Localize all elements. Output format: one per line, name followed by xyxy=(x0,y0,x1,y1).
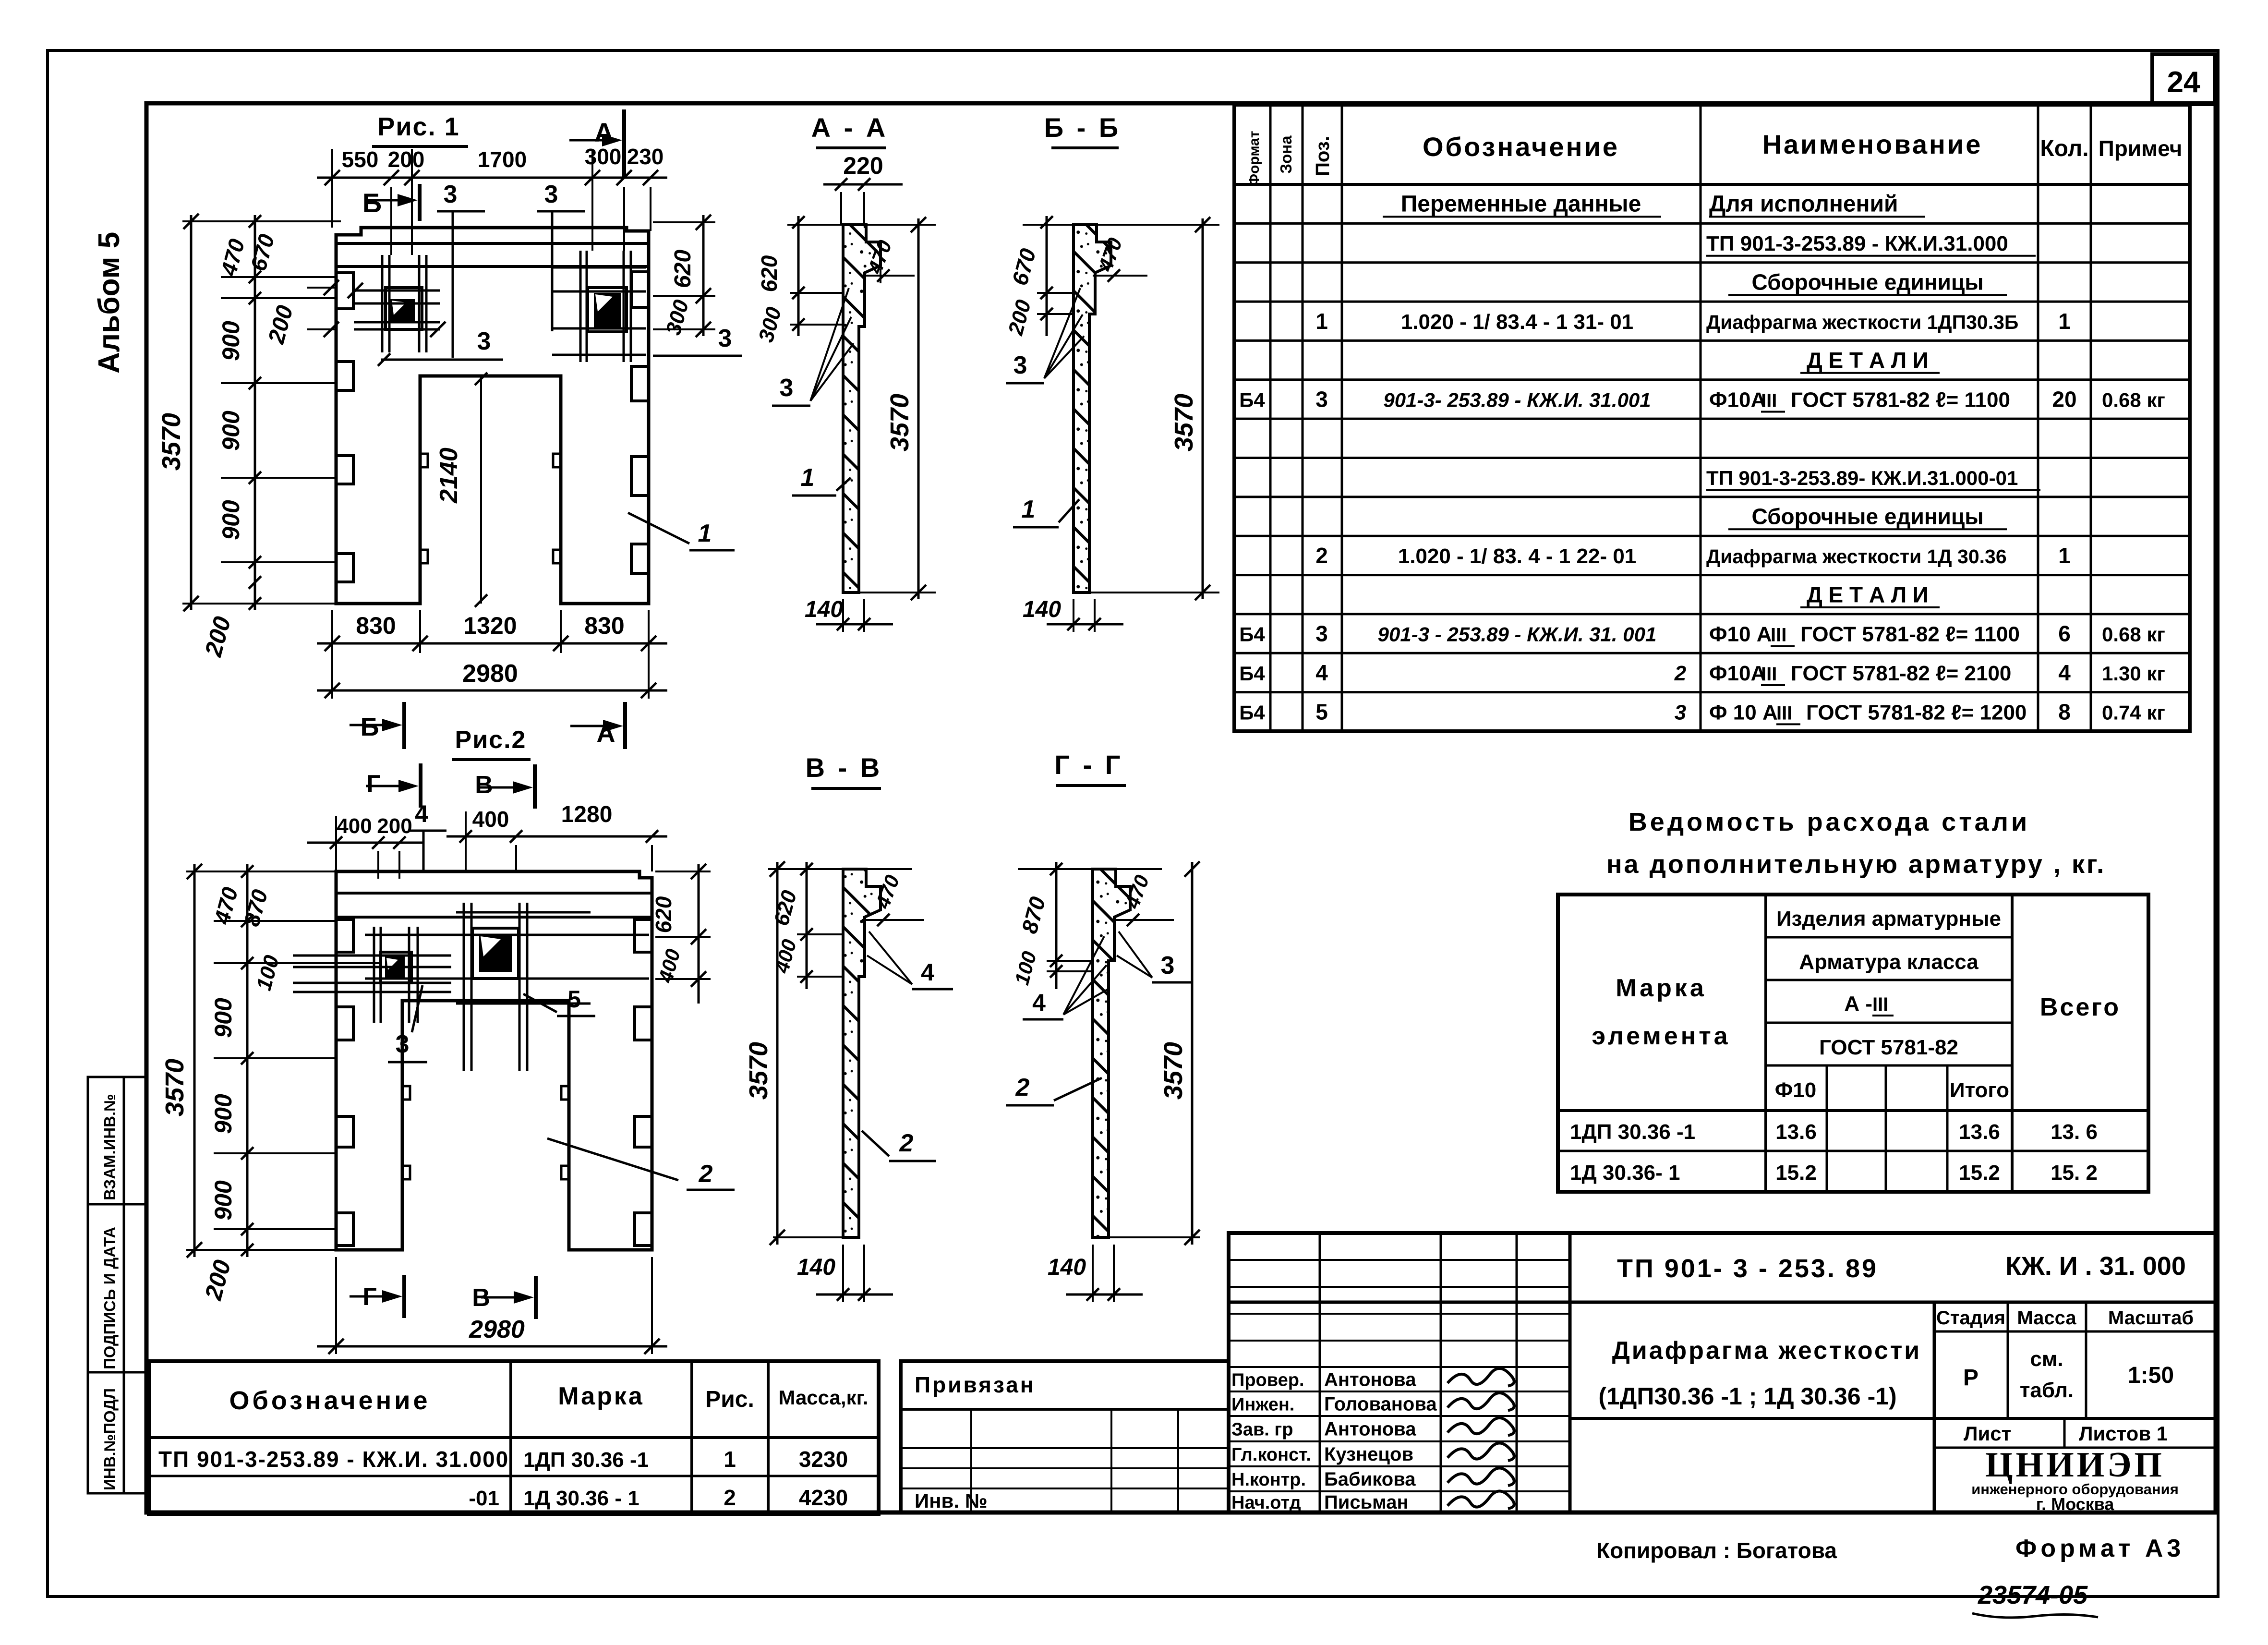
svg-text:140: 140 xyxy=(1048,1255,1086,1280)
svg-text:400: 400 xyxy=(337,814,372,838)
fig2 shear keys left edge xyxy=(336,919,353,952)
steel table verticals xyxy=(1764,895,1767,1192)
svg-text:Инжен.: Инжен. xyxy=(1231,1395,1294,1415)
svg-text:550: 550 xyxy=(342,147,379,172)
fig1 dim 200 near left embed xyxy=(324,280,339,295)
svg-text:Ф10А: Ф10А xyxy=(1709,662,1766,685)
svg-text:ГОСТ 5781-82 ℓ= 1100: ГОСТ 5781-82 ℓ= 1100 xyxy=(1791,388,2010,411)
svg-text:Листов 1: Листов 1 xyxy=(2079,1422,2168,1445)
svg-text:1Д 30.36- 1: 1Д 30.36- 1 xyxy=(1570,1161,1680,1185)
fig1 opening dim line 2140 vertical xyxy=(480,376,482,604)
svg-text:ГОСТ 5781-82: ГОСТ 5781-82 xyxy=(1819,1036,1958,1059)
svg-text:2: 2 xyxy=(1315,543,1328,568)
svg-text:Гл.конст.: Гл.конст. xyxy=(1231,1445,1311,1465)
section В-В top extension line xyxy=(768,868,912,870)
svg-text:Копировал : Богатова: Копировал : Богатова xyxy=(1596,1538,1837,1563)
svg-text:Д Е Т А Л И: Д Е Т А Л И xyxy=(1807,348,1929,373)
bottom table columns xyxy=(509,1361,512,1514)
svg-text:2140: 2140 xyxy=(435,448,463,504)
svg-text:1: 1 xyxy=(1022,496,1036,523)
section Г-Г column xyxy=(1093,869,1130,1237)
svg-text:Рис.2: Рис.2 xyxy=(455,726,527,754)
svg-text:III: III xyxy=(1872,994,1888,1015)
svg-text:20: 20 xyxy=(2052,387,2076,411)
svg-text:Лист: Лист xyxy=(1964,1422,2011,1445)
svg-text:901-3- 253.89 - КЖ.И. 31.001: 901-3- 253.89 - КЖ.И. 31.001 xyxy=(1383,388,1651,411)
svg-text:Масса,кг.: Масса,кг. xyxy=(778,1386,868,1409)
svg-text:Поз.: Поз. xyxy=(1312,136,1333,176)
svg-text:3: 3 xyxy=(1675,701,1686,724)
svg-text:3: 3 xyxy=(1161,952,1175,980)
svg-text:5: 5 xyxy=(1315,699,1328,724)
svg-text:Наименование: Наименование xyxy=(1762,129,1983,159)
svg-text:1:50: 1:50 xyxy=(2128,1363,2174,1388)
svg-text:140: 140 xyxy=(1023,597,1061,622)
svg-text:Нач.отд: Нач.отд xyxy=(1231,1493,1301,1513)
svg-text:300: 300 xyxy=(585,144,622,169)
svg-text:1.30 кг: 1.30 кг xyxy=(2102,662,2165,685)
svg-text:15. 2: 15. 2 xyxy=(2051,1161,2098,1185)
svg-text:0.68 кг: 0.68 кг xyxy=(2102,623,2165,646)
svg-text:Ф10 А: Ф10 А xyxy=(1709,623,1772,646)
svg-text:4: 4 xyxy=(1032,989,1046,1016)
svg-text:ГОСТ 5781-82 ℓ= 1200: ГОСТ 5781-82 ℓ= 1200 xyxy=(1806,701,2027,724)
section Б-Б bottom extension line xyxy=(1074,592,1219,593)
fig2 top dim chain 400/1280 xyxy=(446,835,667,838)
svg-text:900: 900 xyxy=(217,500,244,540)
fig1 shear keys right edge xyxy=(631,272,649,307)
svg-text:III: III xyxy=(1776,702,1792,724)
fig2 embed right rebar verticals xyxy=(463,903,465,1071)
svg-text:Сборочные единицы: Сборочные единицы xyxy=(1752,504,1984,529)
spec table outer xyxy=(1234,105,2190,731)
fig2 panel outline xyxy=(336,871,652,1250)
svg-text:0.68 кг: 0.68 кг xyxy=(2102,388,2165,411)
svg-text:2: 2 xyxy=(724,1485,736,1510)
fig2 top strip lines xyxy=(336,892,652,895)
fig2 shear keys right edge xyxy=(635,919,652,952)
fig1 left dim line 3570 xyxy=(190,215,193,610)
svg-text:13.6: 13.6 xyxy=(1775,1120,1817,1144)
svg-text:15.2: 15.2 xyxy=(1959,1161,2000,1185)
stamp box ИНВ.№ПОДЛ xyxy=(88,1372,146,1493)
svg-text:Ведомость расхода стали: Ведомость расхода стали xyxy=(1629,808,2030,836)
svg-text:Б: Б xyxy=(362,188,382,218)
svg-text:0.74 кг: 0.74 кг xyxy=(2102,701,2165,724)
svg-text:8: 8 xyxy=(2058,699,2071,724)
svg-text:1280: 1280 xyxy=(561,802,613,827)
svg-text:Ф10А: Ф10А xyxy=(1709,388,1766,411)
fig2 left dim line 3570 xyxy=(193,864,196,1257)
привязан cell xyxy=(901,1408,1229,1411)
svg-text:1Д 30.36 - 1: 1Д 30.36 - 1 xyxy=(523,1487,639,1510)
svg-text:3570: 3570 xyxy=(744,1042,773,1100)
svg-text:230: 230 xyxy=(627,144,664,169)
fig1 embed plate right xyxy=(588,288,627,332)
svg-text:Всего: Всего xyxy=(2040,993,2121,1021)
svg-text:620: 620 xyxy=(670,250,696,288)
svg-text:1700: 1700 xyxy=(478,147,527,172)
list row xyxy=(1934,1447,2216,1449)
svg-text:900: 900 xyxy=(217,411,244,451)
svg-text:г. Москва: г. Москва xyxy=(2036,1494,2115,1514)
svg-text:Ф10: Ф10 xyxy=(1775,1078,1817,1102)
svg-text:2980: 2980 xyxy=(462,660,518,688)
svg-text:Б: Б xyxy=(361,713,379,741)
svg-text:Письман: Письман xyxy=(1324,1492,1409,1513)
fig1 embed right rebar horizontals xyxy=(552,266,646,269)
svg-text:III: III xyxy=(1761,390,1777,411)
svg-text:Марка: Марка xyxy=(1616,974,1707,1002)
svg-text:Привязан: Привязан xyxy=(915,1372,1036,1397)
svg-text:ТП 901-3-253.89 - КЖ.И. 31.0: ТП 901-3-253.89 - КЖ.И. 31.000 xyxy=(158,1447,509,1472)
svg-text:3: 3 xyxy=(718,325,732,352)
steel table horizontals xyxy=(1766,936,2012,939)
svg-text:Арматура класса: Арматура класса xyxy=(1799,950,1978,974)
svg-text:Рис.: Рис. xyxy=(705,1387,754,1412)
title block outer xyxy=(1229,1233,2216,1512)
fig1 dim extension verticals top xyxy=(331,149,333,228)
fig2 right dim chain 620/400 xyxy=(698,864,700,1004)
section В-В column xyxy=(843,869,881,1237)
fig1 embed left rebar horizontals xyxy=(354,290,440,292)
svg-text:1.020 - 1/ 83.4 - 1 31- 0: 1.020 - 1/ 83.4 - 1 31- 01 xyxy=(1401,310,1633,334)
svg-text:200: 200 xyxy=(377,814,412,838)
section Г-Г left dims 870/100 xyxy=(1055,862,1058,989)
svg-text:15.2: 15.2 xyxy=(1775,1161,1817,1185)
svg-text:Формат: Формат xyxy=(1246,131,1262,186)
title block name/stadia divider xyxy=(1570,1417,2216,1420)
svg-text:Примеч: Примеч xyxy=(2099,136,2183,161)
section Б-Б column xyxy=(1074,225,1111,593)
page number box xyxy=(2152,54,2215,104)
svg-text:1ДП 30.36 -1: 1ДП 30.36 -1 xyxy=(1570,1120,1695,1144)
section A-A left dims 620/300 xyxy=(797,216,800,336)
spec table header bottom line xyxy=(1234,183,2190,186)
svg-text:Голованова: Голованова xyxy=(1324,1394,1437,1415)
svg-text:1: 1 xyxy=(2058,543,2071,568)
title block left columns xyxy=(1319,1233,1321,1512)
svg-text:Марка: Марка xyxy=(558,1382,644,1410)
svg-text:В - В: В - В xyxy=(806,752,883,783)
svg-text:ТП 901- 3 - 253. 89: ТП 901- 3 - 253. 89 xyxy=(1617,1254,1878,1283)
svg-text:200: 200 xyxy=(388,147,425,172)
fig2 opening small tabs xyxy=(402,1086,410,1100)
svg-text:Б4: Б4 xyxy=(1239,623,1265,646)
svg-text:2980: 2980 xyxy=(469,1316,525,1343)
svg-text:3570: 3570 xyxy=(1170,394,1198,451)
svg-text:Альбом 5: Альбом 5 xyxy=(93,232,126,374)
svg-text:1: 1 xyxy=(724,1447,736,1472)
svg-text:Переменные данные: Переменные данные xyxy=(1401,192,1641,217)
svg-text:3570: 3570 xyxy=(1159,1042,1188,1100)
svg-text:III: III xyxy=(1761,664,1777,685)
fig1 opening small tabs xyxy=(420,454,428,467)
fig2 leader 2 xyxy=(547,1138,678,1180)
section Г-Г dim 3570 xyxy=(1191,862,1194,1245)
svg-text:Для исполнений: Для исполнений xyxy=(1709,192,1898,217)
fig1 embed left rebar verticals xyxy=(381,255,384,352)
svg-text:830: 830 xyxy=(356,612,396,639)
svg-text:на дополнительную арматуру ,: на дополнительную арматуру , кг. xyxy=(1606,850,2106,879)
svg-text:23574-05: 23574-05 xyxy=(1978,1581,2088,1609)
svg-text:Кузнецов: Кузнецов xyxy=(1324,1444,1413,1465)
svg-text:Н.контр.: Н.контр. xyxy=(1231,1470,1306,1490)
svg-text:830: 830 xyxy=(584,612,624,639)
spec table column lines xyxy=(1269,105,1272,731)
fig1 panel outline xyxy=(336,228,649,604)
svg-text:Изделия арматурные: Изделия арматурные xyxy=(1776,907,2001,931)
svg-text:табл.: табл. xyxy=(2020,1379,2074,1402)
svg-text:В: В xyxy=(475,771,493,799)
svg-text:Г: Г xyxy=(366,770,380,798)
svg-text:Б4: Б4 xyxy=(1239,388,1265,411)
svg-text:4230: 4230 xyxy=(799,1485,848,1510)
svg-text:3: 3 xyxy=(780,374,794,402)
svg-text:3: 3 xyxy=(1315,621,1328,646)
svg-text:Б4: Б4 xyxy=(1239,662,1265,685)
svg-text:см.: см. xyxy=(2030,1347,2063,1371)
svg-text:900: 900 xyxy=(217,321,244,361)
svg-text:Зона: Зона xyxy=(1277,135,1295,174)
title block top divider xyxy=(1229,1301,2216,1304)
svg-text:4: 4 xyxy=(921,959,934,986)
fig2 top dim chain 400/200 xyxy=(307,842,422,844)
svg-text:620: 620 xyxy=(757,255,782,292)
section Г-Г top extension line xyxy=(1018,868,1162,870)
spec table row lines xyxy=(1234,222,2190,225)
fig1 bottom dim 2980 xyxy=(317,689,667,692)
fig1 embed plate left xyxy=(386,288,422,329)
svg-text:220: 220 xyxy=(843,152,883,179)
svg-text:3: 3 xyxy=(1013,351,1027,379)
svg-text:III: III xyxy=(1771,625,1786,646)
svg-text:400: 400 xyxy=(472,807,509,832)
stamp box ВЗАМ.ИНВ.№ xyxy=(88,1077,146,1204)
svg-text:Формат А3: Формат А3 xyxy=(2015,1535,2184,1562)
svg-text:(1ДП30.36 -1 ; 1Д 30.36 -1): (1ДП30.36 -1 ; 1Д 30.36 -1) xyxy=(1598,1383,1896,1410)
svg-text:Стадия: Стадия xyxy=(1936,1307,2005,1329)
svg-text:ТП 901-3-253.89 - КЖ.И.31.000: ТП 901-3-253.89 - КЖ.И.31.000 xyxy=(1706,232,2008,255)
bottom table header line xyxy=(149,1436,879,1439)
fig1 bottom dim chain 830/1320/830 xyxy=(317,642,667,645)
svg-text:Кол.: Кол. xyxy=(2040,136,2088,161)
fig1 embed left anchor dim ticks xyxy=(348,283,363,298)
svg-text:Масштаб: Масштаб xyxy=(2108,1307,2194,1329)
svg-text:1: 1 xyxy=(1315,309,1328,334)
svg-text:3230: 3230 xyxy=(799,1447,848,1472)
svg-text:Б - Б: Б - Б xyxy=(1044,112,1121,143)
svg-text:3570: 3570 xyxy=(157,413,186,471)
svg-text:Сборочные единицы: Сборочные единицы xyxy=(1752,269,1984,294)
svg-text:901-3 - 253.89 - КЖ.И. 31. 0: 901-3 - 253.89 - КЖ.И. 31. 001 xyxy=(1378,623,1657,646)
svg-text:Антонова: Антонова xyxy=(1324,1369,1416,1391)
привязан block outer xyxy=(901,1361,1229,1512)
svg-text:Ф 10 А: Ф 10 А xyxy=(1709,701,1778,724)
svg-text:Зав. гр: Зав. гр xyxy=(1231,1420,1293,1440)
svg-text:А - А: А - А xyxy=(811,112,889,143)
svg-text:4: 4 xyxy=(2058,660,2071,685)
section A-A dim 3570 xyxy=(917,218,920,599)
svg-text:Г - Г: Г - Г xyxy=(1054,750,1123,780)
section Б-Б top extension line xyxy=(1023,224,1219,226)
svg-text:13.6: 13.6 xyxy=(1959,1120,2000,1144)
svg-text:13. 6: 13. 6 xyxy=(2051,1120,2098,1144)
svg-text:Обозначение: Обозначение xyxy=(229,1386,430,1415)
section В-В left dims 620/400 xyxy=(806,862,808,989)
main drawing frame xyxy=(146,103,2216,1512)
fig1 left segment dim line xyxy=(254,215,256,610)
svg-text:1.020 - 1/ 83. 4 - 1 22- 01: 1.020 - 1/ 83. 4 - 1 22- 01 xyxy=(1398,544,1637,568)
svg-text:3570: 3570 xyxy=(885,394,914,451)
svg-text:Диафрагма жесткости: Диафрагма жесткости xyxy=(1612,1337,1922,1365)
svg-text:ГОСТ 5781-82 ℓ= 2100: ГОСТ 5781-82 ℓ= 2100 xyxy=(1791,662,2011,685)
svg-text:4: 4 xyxy=(415,800,428,827)
section Б-Б left dims 670/200 xyxy=(1046,216,1048,336)
svg-text:1ДП 30.36 -1: 1ДП 30.36 -1 xyxy=(523,1448,649,1472)
svg-text:140: 140 xyxy=(805,597,843,622)
svg-text:ТП 901-3-253.89- КЖ.И.31.000-: ТП 901-3-253.89- КЖ.И.31.000-01 xyxy=(1706,467,2018,489)
svg-text:Обозначение: Обозначение xyxy=(1423,132,1619,162)
section Г-Г bottom extension line xyxy=(1093,1236,1200,1238)
svg-text:4: 4 xyxy=(1315,660,1328,685)
привязан grid rows xyxy=(901,1447,1229,1449)
bottom table outer xyxy=(149,1361,879,1514)
fig1 top strip lines xyxy=(336,242,649,245)
svg-text:900: 900 xyxy=(210,1094,237,1134)
title block left small rows xyxy=(1229,1259,1570,1261)
svg-text:140: 140 xyxy=(797,1255,835,1280)
svg-text:1: 1 xyxy=(801,464,815,492)
svg-text:КЖ. И . 31. 000: КЖ. И . 31. 000 xyxy=(2005,1252,2186,1281)
привязан grid columns xyxy=(970,1409,972,1512)
svg-text:3: 3 xyxy=(477,327,491,355)
svg-text:6: 6 xyxy=(2058,621,2071,646)
section Б-Б dim 3570 xyxy=(1202,218,1204,599)
title block main verticals xyxy=(1568,1233,1572,1512)
svg-text:ИНВ.№ПОДЛ: ИНВ.№ПОДЛ xyxy=(101,1388,119,1490)
svg-text:1320: 1320 xyxy=(463,612,517,639)
section A-A column xyxy=(843,225,881,593)
section A-A bottom extension line xyxy=(843,592,936,593)
fig1 shear keys left edge xyxy=(336,273,353,309)
stadia columns xyxy=(2007,1302,2009,1418)
svg-text:Диафрагма жесткости 1ДП30.3Б: Диафрагма жесткости 1ДП30.3Б xyxy=(1706,311,2018,333)
svg-text:ВЗАМ.ИНВ.№: ВЗАМ.ИНВ.№ xyxy=(101,1094,119,1200)
stamp box ПОДПИСЬ И ДАТА xyxy=(88,1204,146,1372)
svg-text:Провер.: Провер. xyxy=(1231,1370,1304,1391)
svg-text:5: 5 xyxy=(567,986,581,1013)
svg-text:Д Е Т А Л И: Д Е Т А Л И xyxy=(1807,582,1929,607)
svg-text:900: 900 xyxy=(210,1180,237,1221)
svg-text:3: 3 xyxy=(396,1030,410,1058)
fig1 embed right rebar verticals xyxy=(579,251,582,362)
fig1 top dimension chain 550/200/1700/300/230 xyxy=(317,177,667,179)
svg-text:ЦНИИЭП: ЦНИИЭП xyxy=(1985,1445,2165,1485)
svg-text:900: 900 xyxy=(210,998,237,1038)
svg-text:ПОДПИСЬ И ДАТА: ПОДПИСЬ И ДАТА xyxy=(101,1227,119,1369)
svg-text:Масса: Масса xyxy=(2017,1307,2076,1329)
svg-text:Р: Р xyxy=(1963,1365,1978,1391)
signatures scribbles xyxy=(1448,1368,1514,1386)
svg-text:3: 3 xyxy=(1315,387,1328,411)
svg-text:Итого: Итого xyxy=(1950,1078,2009,1102)
svg-text:2: 2 xyxy=(1674,662,1687,685)
fig2 bottom dim 2980 xyxy=(317,1345,667,1348)
svg-text:2: 2 xyxy=(699,1160,713,1188)
svg-text:3: 3 xyxy=(444,181,458,208)
section A-A top extension line xyxy=(787,224,936,226)
fig2 embed left rebar horizontals xyxy=(293,955,451,957)
svg-text:Инв. №: Инв. № xyxy=(915,1489,988,1512)
svg-text:Антонова: Антонова xyxy=(1324,1419,1416,1440)
svg-text:Б4: Б4 xyxy=(1239,701,1265,724)
svg-text:620: 620 xyxy=(651,896,676,933)
svg-text:ГОСТ 5781-82 ℓ= 1100: ГОСТ 5781-82 ℓ= 1100 xyxy=(1800,623,2020,646)
fig1 right dim chain 620/300 xyxy=(702,215,705,336)
fig2 embed plate right (поз.5) xyxy=(472,928,519,979)
svg-text:Бабикова: Бабикова xyxy=(1324,1469,1416,1490)
section В-В bottom extension line xyxy=(773,1236,859,1238)
svg-text:Рис. 1: Рис. 1 xyxy=(377,112,459,141)
svg-text:24: 24 xyxy=(2167,66,2200,99)
svg-text:А -: А - xyxy=(1844,992,1872,1016)
svg-text:1: 1 xyxy=(698,520,712,547)
svg-text:Диафрагма жесткости 1Д 30.36: Диафрагма жесткости 1Д 30.36 xyxy=(1706,545,2007,568)
svg-text:-01: -01 xyxy=(469,1487,499,1510)
fig2 embed plate left (поз.3) xyxy=(381,952,411,983)
svg-text:2: 2 xyxy=(899,1129,914,1157)
fig2 left segment dim line xyxy=(246,864,249,1257)
svg-text:элемента: элемента xyxy=(1592,1022,1730,1050)
fig2 embed left rebar verticals xyxy=(373,927,375,1023)
fig2 embed right rebar horizontals xyxy=(456,911,591,914)
section В-В dim 3570 xyxy=(776,862,779,1245)
svg-text:3: 3 xyxy=(544,181,558,208)
svg-text:1: 1 xyxy=(2058,309,2071,334)
svg-text:2: 2 xyxy=(1015,1074,1030,1101)
fig1 leader 1 xyxy=(628,513,689,544)
steel table outer xyxy=(1558,895,2148,1192)
svg-text:3570: 3570 xyxy=(160,1059,189,1116)
